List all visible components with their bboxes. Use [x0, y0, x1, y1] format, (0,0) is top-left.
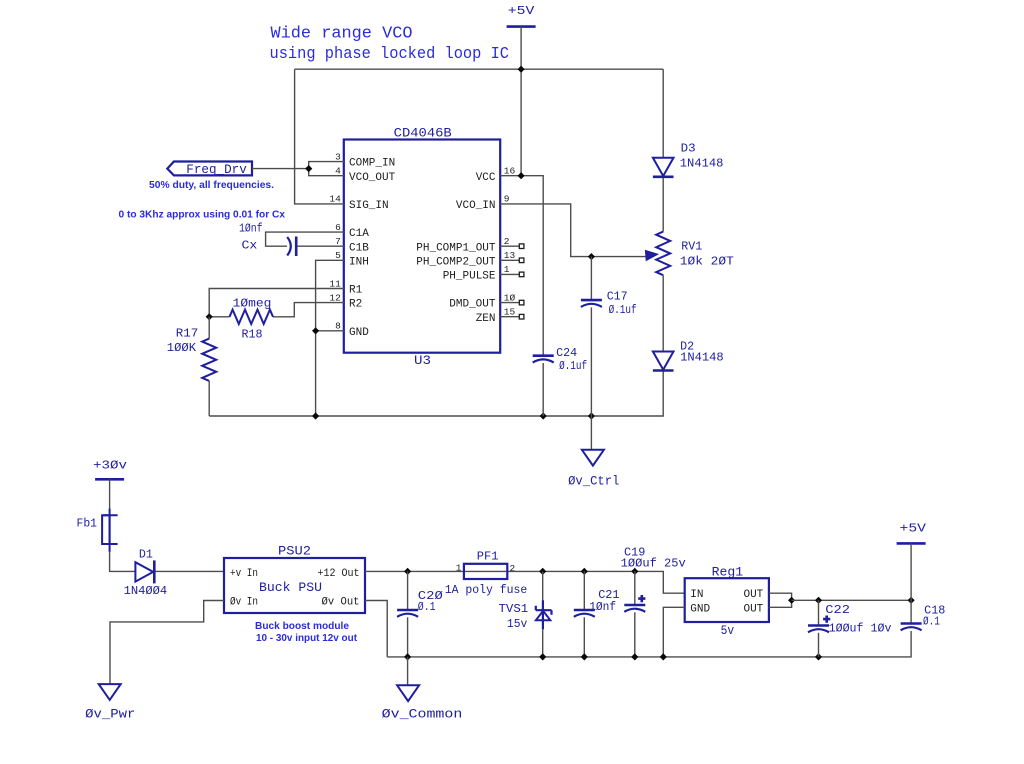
wire C20 bottom lead	[407, 617, 409, 657]
svg-text:Reg1: Reg1	[712, 566, 744, 580]
svg-text:R1: R1	[349, 285, 363, 297]
power symbol +5V bar (right)	[897, 542, 926, 545]
svg-text:CD4046B: CD4046B	[394, 126, 453, 140]
wire bracket pin6/pin7	[266, 232, 344, 246]
svg-text:Øv_Pwr: Øv_Pwr	[85, 707, 135, 722]
junction rail / C19	[631, 653, 638, 660]
resistor R17	[202, 339, 216, 381]
junction +12 rail / C21	[581, 568, 588, 575]
wire Fb1 to D1	[110, 552, 135, 572]
resistor R18	[230, 310, 274, 324]
wire +12 Out rail	[365, 571, 685, 593]
wire VCO_IN pin9 to wiper	[500, 204, 646, 257]
svg-text:PF1: PF1	[477, 550, 499, 564]
svg-text:GND: GND	[690, 603, 710, 615]
wire rail to 0v_Common	[407, 657, 409, 685]
potentiometer RV1 body	[656, 232, 670, 276]
wire R1 pin11 down	[209, 289, 344, 317]
wire C22 bottom lead	[818, 633, 820, 657]
svg-text:COMP_IN: COMP_IN	[349, 158, 395, 170]
svg-text:PSU2: PSU2	[278, 545, 311, 559]
svg-text:Buck boost module: Buck boost module	[255, 620, 349, 632]
wire C20 top lead	[407, 571, 409, 609]
svg-text:1N4148: 1N4148	[680, 351, 724, 365]
wire +5V stem down to VCC	[520, 27, 522, 176]
svg-text:14: 14	[329, 194, 341, 205]
svg-text:3: 3	[335, 151, 341, 162]
svg-text:15v: 15v	[507, 617, 527, 631]
svg-text:1Øk 2ØT: 1Øk 2ØT	[680, 255, 734, 269]
junction rail / Reg1 GND	[660, 653, 667, 660]
junction INH/GND	[312, 327, 319, 334]
wire 0v Out down	[365, 601, 387, 657]
svg-text:Cx: Cx	[242, 238, 258, 252]
svg-text:D3: D3	[681, 142, 696, 156]
junction +5V rail / +5V stem	[908, 597, 915, 604]
module PSU2 box	[224, 558, 365, 613]
wire R17 bottom lead	[208, 381, 210, 416]
power symbol +5V bar (top)	[507, 25, 536, 28]
no-connect square pin 13	[519, 258, 524, 263]
junction rail / C24	[540, 412, 547, 419]
regulator Reg1 box	[685, 578, 769, 622]
svg-text:5: 5	[335, 250, 341, 261]
wire stub pin 1	[500, 273, 519, 275]
wire INH pin5 down	[316, 260, 344, 331]
wire C21 bottom lead	[583, 617, 585, 657]
svg-text:+v In: +v In	[230, 568, 258, 580]
no-connect square pin 15	[519, 314, 524, 319]
junction +12 rail / C20	[404, 568, 411, 575]
svg-text:10 - 30v input 12v out: 10 - 30v input 12v out	[256, 632, 357, 644]
svg-text:Buck PSU: Buck PSU	[259, 581, 322, 595]
op-amp/IC U3 CD4046B box	[344, 140, 500, 353]
wire +5V stem to C18	[910, 543, 912, 622]
svg-text:8: 8	[335, 321, 341, 332]
wire +5V output rail	[792, 599, 912, 601]
potentiometer RV1 wiper arrow	[645, 250, 657, 260]
svg-text:using phase locked loop IC: using phase locked loop IC	[270, 44, 510, 63]
svg-text:Ø.1: Ø.1	[923, 614, 940, 628]
svg-text:4: 4	[335, 166, 341, 177]
diode D2	[653, 352, 674, 371]
junction rail / C22	[815, 653, 822, 660]
wire GND pin8	[316, 331, 344, 416]
svg-text:5v: 5v	[721, 624, 735, 638]
wire 0v In to 0v_Pwr	[110, 601, 224, 685]
svg-text:R18: R18	[242, 328, 263, 342]
no-connect square pin 2	[519, 244, 524, 249]
svg-text:+3Øv: +3Øv	[93, 458, 127, 472]
capacitor C22 (polarized)	[808, 626, 829, 633]
wire D1 to PSU2	[156, 570, 225, 572]
fuse/ferrite Fb1	[102, 509, 118, 552]
svg-text:SIG_IN: SIG_IN	[349, 200, 389, 212]
junction +12 rail / C19	[631, 568, 638, 575]
svg-text:C1B: C1B	[349, 242, 369, 254]
svg-text:Øv Out: Øv Out	[322, 596, 360, 608]
wire C19 top lead	[634, 571, 636, 604]
svg-text:+12 Out: +12 Out	[318, 568, 360, 580]
svg-text:C24: C24	[556, 346, 577, 360]
svg-text:Ø.1: Ø.1	[418, 600, 436, 614]
svg-text:1: 1	[504, 264, 510, 275]
svg-text:D1: D1	[139, 548, 153, 562]
wire D3 to RV1	[662, 178, 664, 232]
capacitor C21	[574, 610, 595, 617]
junction rail / C17-0v_Ctrl	[588, 412, 595, 419]
svg-text:VCC: VCC	[476, 172, 496, 184]
wire C22 top lead	[818, 600, 820, 624]
svg-text:TVS1: TVS1	[499, 602, 529, 616]
power symbol +30v bar	[95, 478, 124, 481]
wire VCO ground rail	[209, 368, 663, 416]
svg-text:1ØØuf 25v: 1ØØuf 25v	[621, 557, 686, 571]
svg-text:9: 9	[504, 194, 510, 205]
junction OUT bracket	[788, 597, 795, 604]
junction pin3/4 bracket	[305, 165, 312, 172]
wire top rail	[295, 68, 664, 70]
svg-text:R17: R17	[176, 327, 199, 341]
svg-text:PH_COMP2_OUT: PH_COMP2_OUT	[416, 256, 496, 268]
wire R17 top lead	[208, 317, 210, 339]
svg-text:1Ø: 1Ø	[504, 292, 516, 303]
svg-text:VCO_IN: VCO_IN	[456, 200, 496, 212]
wire VCC pin16 to C24 column	[500, 176, 543, 355]
svg-text:11: 11	[329, 278, 341, 289]
svg-text:C17: C17	[607, 290, 628, 304]
svg-text:C1A: C1A	[349, 228, 369, 240]
capacitor C20	[397, 610, 418, 617]
capacitor C18	[901, 624, 922, 631]
svg-text:1Ønf: 1Ønf	[239, 222, 263, 236]
svg-text:PH_COMP1_OUT: PH_COMP1_OUT	[416, 242, 496, 254]
svg-text:12: 12	[329, 292, 341, 303]
polarity mark C22	[823, 616, 830, 623]
svg-text:R2: R2	[349, 299, 362, 311]
svg-text:Ø.1uf: Ø.1uf	[559, 359, 587, 373]
svg-text:1A poly fuse: 1A poly fuse	[445, 583, 528, 597]
svg-text:13: 13	[504, 250, 516, 261]
wire C21 top lead	[583, 571, 585, 609]
wire RV1 to D2	[662, 275, 664, 351]
junction rail / C21	[581, 653, 588, 660]
svg-text:VCO_OUT: VCO_OUT	[349, 172, 396, 184]
wire C17 top lead	[590, 257, 592, 299]
svg-text:Øv In: Øv In	[230, 596, 258, 608]
svg-text:6: 6	[335, 222, 341, 233]
wire stub pin 13	[500, 259, 519, 261]
diode D1	[135, 560, 154, 583]
capacitor C24	[533, 356, 554, 363]
svg-text:7: 7	[335, 236, 341, 247]
wire +30v stem	[109, 479, 111, 509]
svg-text:Øv_Common: Øv_Common	[382, 707, 463, 722]
wire Cx to pin7	[297, 245, 345, 247]
junction rail / GND wire	[312, 412, 319, 419]
svg-text:Wide range VCO: Wide range VCO	[271, 24, 413, 43]
junction R17/R18/R1	[206, 313, 213, 320]
wire C17 bottom lead	[590, 307, 592, 416]
wire Freq_Drv to pins 3/4	[252, 168, 309, 170]
junction VCC / +5V stem	[518, 172, 525, 179]
svg-text:OUT: OUT	[743, 603, 763, 615]
wire Reg1 GND down	[663, 607, 684, 657]
svg-text:2: 2	[510, 563, 516, 574]
TVS diode TVS1	[536, 600, 552, 629]
wire OUT bracket	[769, 593, 792, 607]
junction top rail / +5V stem	[518, 66, 525, 73]
polarity mark C19	[638, 595, 645, 602]
fuse PF1 box	[464, 564, 507, 579]
svg-text:DMD_OUT: DMD_OUT	[449, 299, 496, 311]
junction rail / TVS1	[539, 653, 546, 660]
wire top rail down to SIG_IN	[295, 69, 344, 204]
svg-text:1ØØK: 1ØØK	[167, 341, 197, 355]
svg-text:Ø.1uf: Ø.1uf	[609, 303, 637, 317]
wire power ground rail	[387, 631, 911, 657]
junction VCO_IN / C17	[588, 253, 595, 260]
svg-text:RV1: RV1	[681, 240, 702, 254]
wire TVS1 top lead	[542, 571, 544, 601]
svg-text:Øv_Ctrl: Øv_Ctrl	[568, 474, 619, 489]
wire rail to 0v_Ctrl	[590, 416, 592, 450]
wire C24 bottom lead	[542, 363, 544, 416]
svg-text:1ØØuf 1Øv: 1ØØuf 1Øv	[829, 622, 892, 636]
no-connect square pin 10	[519, 300, 524, 305]
svg-text:PH_PULSE: PH_PULSE	[443, 271, 496, 283]
svg-text:1N4ØØ4: 1N4ØØ4	[124, 584, 168, 598]
wire top rail down to D3	[662, 69, 664, 157]
capacitor C19 (polarized)	[624, 605, 645, 612]
svg-text:50% duty, all frequencies.: 50% duty, all frequencies.	[149, 179, 274, 191]
svg-text:IN: IN	[690, 589, 703, 601]
svg-text:15: 15	[504, 307, 516, 318]
junction rail / 0v_Common	[404, 653, 411, 660]
ground symbol 0v_Pwr	[99, 684, 121, 700]
svg-text:ZEN: ZEN	[476, 313, 496, 325]
svg-text:Fb1: Fb1	[77, 517, 98, 531]
svg-text:INH: INH	[349, 256, 369, 268]
junction +12 rail / TVS1	[539, 568, 546, 575]
wire stub pin 15	[500, 316, 519, 318]
ground symbol 0v_Common	[397, 685, 419, 701]
wire R2 pin12 down to R18	[273, 303, 344, 317]
junction +5V rail / C22	[815, 597, 822, 604]
svg-text:+5V: +5V	[508, 4, 535, 18]
capacitor Cx symbol	[287, 237, 296, 257]
svg-text:16: 16	[504, 166, 516, 177]
diode D3	[653, 158, 674, 177]
svg-text:OUT: OUT	[743, 589, 763, 601]
svg-text:1Ømeg: 1Ømeg	[233, 296, 272, 310]
ground symbol 0v_Ctrl	[582, 450, 604, 466]
svg-text:2: 2	[504, 236, 510, 247]
svg-text:0 to 3Khz approx using 0.01 fo: 0 to 3Khz approx using 0.01 for Cx	[119, 209, 286, 221]
net flag Freq_Drv	[167, 162, 252, 176]
svg-text:1N4148: 1N4148	[680, 157, 724, 171]
wire C19 bottom lead	[634, 612, 636, 657]
wire TVS1 bottom lead	[542, 629, 544, 657]
svg-text:Freq_Drv: Freq_Drv	[186, 162, 247, 177]
no-connect square pin 1	[519, 272, 524, 277]
wire stub pin 2	[500, 245, 519, 247]
svg-text:C22: C22	[825, 603, 850, 617]
capacitor C17	[581, 300, 602, 307]
svg-text:1Ønf: 1Ønf	[589, 600, 616, 614]
svg-text:U3: U3	[414, 354, 431, 368]
wire stub pin 10	[500, 302, 519, 304]
svg-text:GND: GND	[349, 327, 369, 339]
wire bracket pin3/pin4	[309, 162, 344, 176]
wire R18 left lead	[209, 316, 229, 318]
svg-text:+5V: +5V	[900, 522, 927, 536]
svg-text:1: 1	[456, 563, 462, 574]
